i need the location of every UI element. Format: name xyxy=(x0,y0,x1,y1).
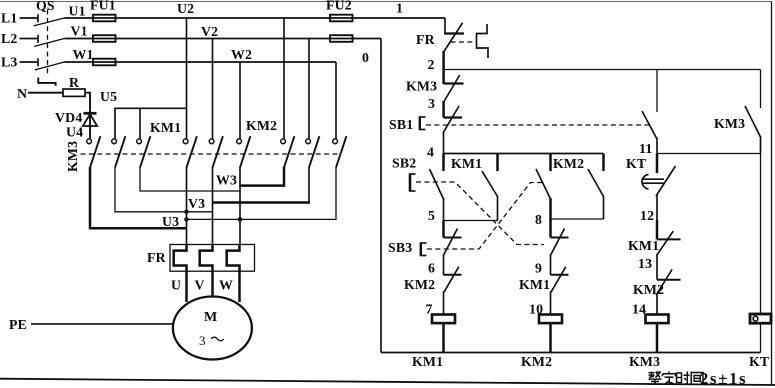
wire KM2 pole3 to U column xyxy=(187,167,337,219)
annotation: setting time 2s plus/minus 1s xyxy=(649,372,704,385)
svg-text:KM1: KM1 xyxy=(412,354,443,369)
junction U column / KM2 pole3 wire xyxy=(184,217,189,222)
svg-text:1: 1 xyxy=(396,1,403,16)
wire KM3 bank feed from U2 column xyxy=(115,108,187,138)
svg-text:14: 14 xyxy=(632,302,646,317)
wire heater W to motor xyxy=(238,271,241,302)
wire W2 drop to KM1 xyxy=(239,62,241,139)
svg-text:SB1: SB1 xyxy=(389,117,413,132)
svg-text:KM2: KM2 xyxy=(404,277,435,292)
wire W1 xyxy=(64,61,93,63)
contactor contact KM3 (NC) in chain xyxy=(444,75,464,102)
fuse FU1 pole 3 xyxy=(93,61,116,63)
svg-text:8: 8 xyxy=(535,212,542,227)
junction W column / KM2 pole3 wire xyxy=(238,217,243,222)
svg-text:W1: W1 xyxy=(73,47,94,62)
wire motor U feed vertical xyxy=(186,167,188,245)
contactor contact KM3 pole 3 xyxy=(137,139,142,144)
svg-text:FR: FR xyxy=(416,32,436,47)
button SB2 linkage dashed (to KM2-branch NC) xyxy=(416,182,544,245)
button SB2 (NC) contact in KM2 branch xyxy=(551,219,569,275)
wire KM2 pole1 to W3 (bold) xyxy=(240,167,284,186)
wire V row (V2 bus) xyxy=(116,38,331,40)
button SB2 actuator bracket xyxy=(409,174,416,192)
figure bottom border line xyxy=(0,379,775,385)
svg-text:13: 13 xyxy=(638,256,652,271)
wire R to U5 corner xyxy=(85,93,90,139)
wire KM3 pole2 to V column xyxy=(115,167,213,212)
svg-text:KM3: KM3 xyxy=(714,116,745,131)
thermal overload FR heater W xyxy=(227,245,240,272)
svg-text:3: 3 xyxy=(199,333,206,348)
wire N xyxy=(28,92,63,94)
contactor contact KM1 pole 2 xyxy=(209,139,214,144)
thermal overload FR heater V xyxy=(200,245,213,272)
svg-text:M: M xyxy=(204,310,217,325)
contactor contact KM2 (NC) in timer branch xyxy=(656,254,681,315)
switch QS pole 2 blade xyxy=(34,39,64,47)
motor M 3-phase xyxy=(173,297,252,360)
switch QS pole 2 terminal tick xyxy=(37,35,39,43)
svg-text:KT: KT xyxy=(749,354,769,369)
wire W row drop to KM2 xyxy=(335,62,337,139)
svg-text:U: U xyxy=(171,278,181,293)
figure right border line xyxy=(771,2,773,385)
svg-text:4: 4 xyxy=(427,145,434,160)
wire KM2 pole2 to V3 (bold) xyxy=(308,167,310,203)
svg-text:V: V xyxy=(195,278,205,293)
svg-text:KM1: KM1 xyxy=(519,277,550,292)
button SB2 (NO) start contact xyxy=(430,154,444,221)
wire FU2 to node 0 xyxy=(353,38,382,40)
switch QS pole 1 blade xyxy=(34,18,65,26)
wire node1 corner down xyxy=(444,18,446,34)
svg-text:L2: L2 xyxy=(1,31,18,46)
svg-text:W2: W2 xyxy=(231,47,252,62)
svg-text:0: 0 xyxy=(362,50,369,65)
relay FR linkage dashes xyxy=(451,41,477,43)
contactor contact KM1 (NC interlock) xyxy=(551,267,569,315)
junction U column / KM3 pole2 wire xyxy=(184,210,189,215)
wire V1 xyxy=(64,38,93,40)
svg-text:KM1: KM1 xyxy=(451,156,482,171)
coil KM3 xyxy=(646,315,669,324)
mechanical linkage dashed across banks xyxy=(81,153,340,155)
svg-text:KM1: KM1 xyxy=(628,238,659,253)
svg-text:KM2: KM2 xyxy=(521,354,552,369)
button SB1 linkage dashed to NO contact xyxy=(426,124,649,126)
svg-text:V2: V2 xyxy=(201,24,218,39)
svg-text:9: 9 xyxy=(535,261,542,276)
wire motor V feed vertical xyxy=(212,167,214,245)
svg-text:2s±1s: 2s±1s xyxy=(700,369,747,388)
switch QS pole 3 blade xyxy=(35,62,64,70)
svg-text:PE: PE xyxy=(9,317,27,332)
wire KM3 third contact stub xyxy=(139,108,141,138)
svg-text:KM2: KM2 xyxy=(633,282,664,297)
wire heater U to motor xyxy=(185,271,188,302)
wire coil KM3 to 0 rail xyxy=(656,324,659,353)
switch QS pole 3 terminal tick xyxy=(37,58,39,66)
svg-text:U4: U4 xyxy=(66,125,83,140)
fuse FU2 on row y=18.0 xyxy=(330,17,353,19)
wire L3 input xyxy=(20,61,38,63)
wire L1 input xyxy=(20,17,38,19)
wire L2 input xyxy=(20,38,38,40)
contactor contact KM1 pole 3 xyxy=(237,139,242,144)
wire U row drop to KM2 xyxy=(283,18,285,139)
fuse FU1 pole 2 xyxy=(93,38,116,40)
svg-text:L1: L1 xyxy=(1,11,18,26)
contactor contact KM2 (NC interlock) xyxy=(444,267,462,315)
button SB3 (NO) start contact for KM2 xyxy=(536,154,551,221)
wire KM3 pole3 to W column xyxy=(140,167,240,191)
contactor contact KM2 (NO self-hold) xyxy=(588,154,604,220)
fuse FU2 on row y=38.5 xyxy=(330,38,353,40)
svg-text:SB3: SB3 xyxy=(388,240,412,255)
wire coil KM2 to 0 rail xyxy=(549,324,552,353)
svg-text:KM1: KM1 xyxy=(150,120,181,135)
svg-text:FU1: FU1 xyxy=(90,0,116,13)
svg-text:6: 6 xyxy=(428,261,435,276)
svg-text:U5: U5 xyxy=(100,89,117,104)
svg-text:KM3: KM3 xyxy=(65,141,80,172)
svg-text:N: N xyxy=(17,86,27,101)
wire node 8 rail xyxy=(551,218,604,220)
svg-text:U1: U1 xyxy=(69,4,86,19)
button SB3 linkage dashed (to KM2-branch NO) xyxy=(427,183,542,250)
wire U2 drop to KM1 xyxy=(186,18,188,139)
wire V2 drop to KM1 xyxy=(212,39,214,139)
svg-text:R: R xyxy=(69,75,80,90)
svg-text:KT: KT xyxy=(626,156,646,171)
contactor contact KM1 (NC) in timer branch xyxy=(657,220,681,255)
wire node 11 rail xyxy=(657,153,761,155)
wire node 2 rail xyxy=(444,69,761,71)
wire heater V to motor xyxy=(211,271,214,302)
wire V row drop to KM2 xyxy=(308,39,310,139)
svg-text:U3: U3 xyxy=(162,214,179,229)
button SB3 actuator bracket xyxy=(420,243,427,257)
relay contact FR (NC) xyxy=(444,23,464,84)
coil KT (timer) xyxy=(750,314,771,323)
svg-text:FU2: FU2 xyxy=(326,0,352,13)
contactor contact KM1 (NO self-hold) xyxy=(482,154,498,221)
timer contact KT (on-delay) xyxy=(642,154,676,221)
contactor contact KM1 pole 1 xyxy=(183,139,188,144)
thermal overload FR heater U xyxy=(174,245,187,272)
svg-text:KM3: KM3 xyxy=(629,354,660,369)
wire node 0 bottom rail xyxy=(381,352,761,354)
switch QS pole 1 terminal tick xyxy=(37,14,39,22)
svg-text:U2: U2 xyxy=(177,1,194,16)
contactor contact KM2 pole 2 xyxy=(306,139,311,144)
svg-text:3: 3 xyxy=(428,96,435,111)
fuse FU1 pole 1 xyxy=(93,17,116,19)
svg-text:2: 2 xyxy=(428,57,435,72)
wire U1 xyxy=(64,17,93,19)
wire U row (U2 bus) xyxy=(116,17,331,19)
svg-text:12: 12 xyxy=(640,208,654,223)
svg-text:FR: FR xyxy=(147,250,167,265)
svg-text:W: W xyxy=(219,278,233,293)
contactor contact KM3 (NO self-hold) xyxy=(745,70,761,154)
wire node 5 rail xyxy=(444,220,499,222)
coil KM2 xyxy=(539,315,562,324)
wire node 0 vertical rail xyxy=(380,39,382,353)
thermal overload FR box xyxy=(170,245,255,272)
switch QS linkage dashed xyxy=(47,10,49,77)
svg-text:L3: L3 xyxy=(1,55,18,70)
svg-text:KM3: KM3 xyxy=(406,79,437,94)
svg-text:V1: V1 xyxy=(71,23,88,38)
coil KM1 xyxy=(432,315,455,324)
svg-text:KM2: KM2 xyxy=(553,156,584,171)
button SB1 (NC) xyxy=(443,101,462,154)
button SB1 (NO) contact for braking branch xyxy=(642,70,657,154)
figure top border line xyxy=(0,1,772,3)
wire W row (W2 bus) xyxy=(116,61,337,63)
button SB3 (NC) contact xyxy=(444,221,462,276)
svg-text:W3: W3 xyxy=(216,173,237,188)
svg-text:V3: V3 xyxy=(188,196,205,211)
svg-text:SB2: SB2 xyxy=(392,156,416,171)
wire motor W feed vertical xyxy=(239,167,241,245)
wire node 4 rail xyxy=(444,153,604,155)
svg-text:11: 11 xyxy=(639,141,652,156)
wire KM3 pole1 to U3 (bold) xyxy=(90,167,187,228)
wire coil KM1 to 0 rail xyxy=(442,324,445,353)
wire node 1 rail xyxy=(353,17,446,19)
contactor contact KM3 pole 2 xyxy=(112,139,117,144)
contactor contact KM3 pole 1 xyxy=(87,139,92,144)
wire node 11 rail to KT coil xyxy=(760,154,762,315)
svg-text:5: 5 xyxy=(428,208,435,223)
svg-text:KM2: KM2 xyxy=(246,118,277,133)
switch QS handle xyxy=(38,78,55,86)
svg-text:VD4: VD4 xyxy=(55,110,82,125)
wire coil KT to 0 rail xyxy=(760,323,762,352)
relay FR heater element symbol xyxy=(477,24,489,58)
wire PE to motor xyxy=(31,323,174,325)
contactor contact KM2 pole 1 xyxy=(281,139,286,144)
contactor contact KM2 pole 3 xyxy=(333,139,338,144)
svg-text:QS: QS xyxy=(36,0,55,13)
button SB1 actuator bracket xyxy=(419,117,426,131)
